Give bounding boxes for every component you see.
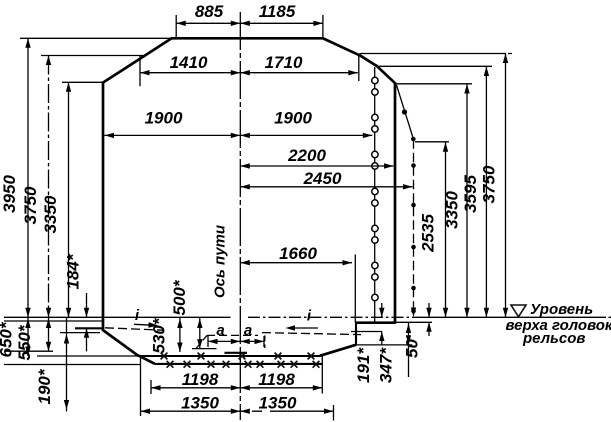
dimension a left: [208, 322, 264, 347]
dimension 184*: [64, 253, 90, 351]
svg-text:1710: 1710: [265, 53, 303, 72]
dimension 550*: [15, 317, 51, 360]
short thick line C below rail left: [75, 327, 103, 329]
svg-text:Уровень: Уровень: [530, 301, 593, 318]
svg-text:3350: 3350: [41, 195, 60, 233]
dimension 3750 right: [480, 54, 509, 318]
dotted contour vertical right: [411, 139, 416, 317]
thin line y=331.5 right: [351, 331, 382, 333]
svg-text:500*: 500*: [170, 279, 189, 315]
floor diagonal lower part: [138, 355, 155, 364]
inclination i label right: [286, 308, 319, 331]
svg-text:530*: 530*: [150, 317, 169, 353]
rail head level line lower left: [4, 320, 104, 322]
dimension 3950 left: [0, 38, 31, 317]
dimension 3750 left: [21, 56, 51, 318]
gauge profile right shoulder segment 2: [359, 55, 377, 66]
gauge profile right wall: [394, 83, 397, 323]
dimension 650*: [0, 317, 31, 357]
svg-text:1900: 1900: [274, 109, 312, 128]
sleeper line with x marks (row 2): [155, 361, 324, 368]
svg-text:550*: 550*: [15, 324, 34, 360]
dimension 50: [403, 303, 432, 358]
svg-text:1350: 1350: [259, 394, 297, 413]
svg-text:3950: 3950: [0, 175, 19, 213]
svg-text:347*: 347*: [377, 347, 396, 383]
rail head level line right: [420, 316, 611, 318]
svg-text:50: 50: [403, 339, 422, 358]
svg-text:3750: 3750: [480, 165, 499, 203]
svg-text:1185: 1185: [259, 2, 296, 21]
dimension 1198 right: [240, 355, 322, 394]
svg-text:2450: 2450: [303, 169, 342, 188]
gauge profile left wall: [102, 81, 105, 331]
dimension 3350 left: [41, 82, 71, 317]
dimension 1198 left: [151, 370, 240, 394]
floor step line y=345: [356, 344, 412, 346]
svg-text:2200: 2200: [287, 146, 326, 165]
svg-text:1410: 1410: [170, 53, 208, 72]
dimension 1410: [140, 53, 359, 86]
dimension 885: [176, 2, 323, 39]
svg-text:Ось пути: Ось пути: [212, 225, 229, 298]
dashed contour around axis left slant: [196, 335, 207, 348]
dimension 2200: [240, 146, 393, 169]
center axis line (Ось пути): [239, 12, 241, 420]
inclination i label left: [134, 307, 158, 328]
svg-text:184*: 184*: [64, 253, 83, 289]
svg-text:рельсов: рельсов: [522, 330, 586, 347]
floor step diagonal: [320, 345, 357, 356]
dimension 191*: [354, 303, 385, 383]
svg-text:3350: 3350: [443, 191, 462, 229]
dimension 500*: [170, 279, 203, 348]
bar left edge down: [355, 323, 357, 345]
svg-text:1350: 1350: [181, 394, 219, 413]
svg-text:2535: 2535: [419, 214, 438, 253]
svg-text:a: a: [244, 322, 252, 339]
extension line y=82.3 left: [62, 81, 103, 83]
svg-text:191*: 191*: [354, 347, 373, 383]
extension line P3 level right: [396, 83, 472, 85]
short thin line E below rail left: [60, 332, 100, 334]
dimension 1900 right: [240, 109, 372, 139]
dashed contour top: [207, 334, 258, 336]
dimension 347*: [377, 322, 412, 383]
svg-text:1198: 1198: [258, 370, 295, 389]
dimension 1350 right: [240, 394, 333, 421]
dimension a right: [240, 322, 264, 344]
thin line y=348.6 center: [192, 348, 217, 350]
level extension line y=351 left: [4, 350, 53, 352]
rail level label: [506, 301, 611, 347]
dimension 1185: [240, 2, 323, 26]
dimension 1350 left: [141, 356, 241, 416]
svg-text:1660: 1660: [279, 244, 317, 263]
top extension line y=38 to left: [20, 37, 172, 39]
dimension 2450: [240, 169, 412, 190]
thick bar under axis: [225, 352, 248, 354]
svg-text:a: a: [216, 322, 224, 339]
svg-text:1900: 1900: [145, 109, 183, 128]
gauge profile top flat: [172, 37, 323, 40]
extension line P2 level right: [377, 65, 492, 67]
svg-text:885: 885: [195, 2, 224, 21]
bottom level line y=364.5 left: [4, 364, 140, 366]
floor line thin left part: [37, 355, 138, 357]
rail head level line left: [4, 316, 231, 318]
dimension 1710: [240, 53, 357, 75]
extension line P1 level right: [360, 53, 513, 55]
dashed slope line left of track: [105, 328, 164, 330]
pantograph chain line with circles: [372, 67, 378, 322]
axis label Ось пути: [212, 225, 229, 298]
gauge profile right shoulder segment 1: [322, 38, 359, 55]
svg-text:190*: 190*: [35, 368, 54, 404]
dimension 190*: [35, 317, 69, 411]
gauge profile left diagonal: [104, 38, 173, 82]
floor diagonal from left wall: [103, 330, 139, 356]
svg-text:3750: 3750: [21, 186, 40, 224]
dotted contour diagonal right: [397, 85, 416, 141]
dimension 1660: [240, 244, 355, 323]
extension line bar level right: [396, 321, 432, 323]
dimension 530*: [150, 317, 183, 353]
extension line y=141.8 right: [415, 141, 449, 143]
rail head level line center dash-dot: [248, 316, 420, 318]
dimension 1900 left: [105, 109, 373, 139]
gauge profile bottom bar right: [355, 321, 396, 324]
svg-text:3595: 3595: [461, 175, 480, 213]
extension line y=55.5 left: [41, 55, 146, 57]
rail level marker triangle: [511, 305, 526, 317]
dashed contour right side: [264, 335, 266, 348]
svg-text:1198: 1198: [182, 370, 219, 389]
dimension 3595: [461, 67, 489, 318]
svg-text:650*: 650*: [0, 321, 16, 357]
gauge profile right shoulder segment 3: [376, 66, 395, 84]
dimension 3350 right: [443, 84, 470, 317]
floor line thick with x marks (row 1): [138, 353, 320, 360]
dimension 2535: [419, 142, 449, 317]
dashed slope line right of track: [262, 333, 361, 335]
